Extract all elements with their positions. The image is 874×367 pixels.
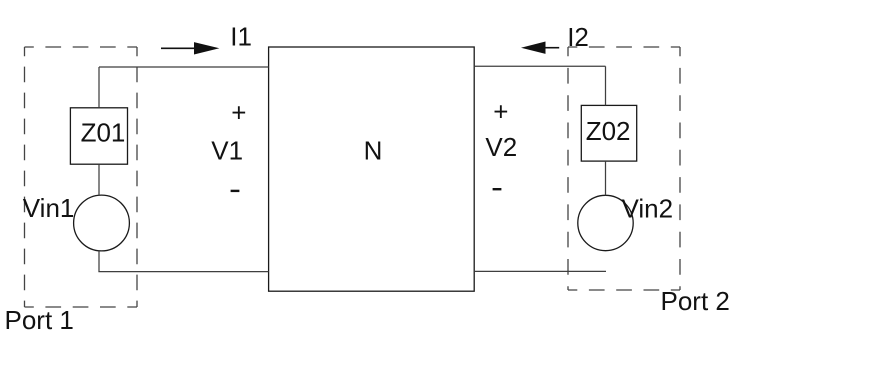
current arrow I1 <box>161 42 219 54</box>
svg-text:Port 1: Port 1 <box>5 305 74 335</box>
wire: top-right horizontal N to corner <box>474 65 605 67</box>
wire: Z02 bottom to Vin2 top <box>605 161 607 195</box>
two-port network N box <box>269 47 475 291</box>
wire: Z01 bottom to Vin1 top <box>98 164 100 195</box>
wire: bottom-right horizontal from N <box>474 270 606 272</box>
svg-text:V2: V2 <box>485 132 517 162</box>
current arrow I2 <box>521 42 559 54</box>
svg-text:N: N <box>364 135 383 165</box>
impedance Z01 box <box>70 108 127 164</box>
wire: vertical down to Z01 top <box>98 67 100 108</box>
svg-text:Vin1: Vin1 <box>23 193 75 223</box>
svg-text:I1: I1 <box>230 21 252 51</box>
svg-text:Z02: Z02 <box>586 116 631 146</box>
svg-text:V1: V1 <box>211 136 243 166</box>
svg-text:+: + <box>493 97 508 127</box>
svg-text:Port 2: Port 2 <box>661 286 730 316</box>
label - (V2 minus) <box>493 188 502 190</box>
svg-text:+: + <box>231 97 246 127</box>
source Vin2 circle <box>578 195 633 250</box>
svg-text:Z01: Z01 <box>81 118 126 148</box>
port 1 boundary (dashed box) <box>25 47 138 307</box>
wire: vertical down to Z02 top <box>605 66 607 105</box>
svg-text:Vin2: Vin2 <box>622 193 674 223</box>
wire: bottom-left horizontal to N <box>98 271 268 273</box>
source Vin1 circle <box>74 195 130 251</box>
svg-text:I2: I2 <box>567 22 589 52</box>
label - (V1 minus) <box>231 190 240 192</box>
wire: top-left horizontal node to N <box>99 66 269 68</box>
port 2 boundary (dashed box) <box>568 47 680 290</box>
wire: Vin1 bottom down <box>98 251 100 272</box>
impedance Z02 box <box>581 105 636 161</box>
